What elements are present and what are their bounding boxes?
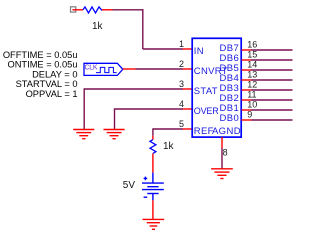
wire vertical down to pin1 row: [142, 9, 144, 49]
resistor R1 right lead: [102, 9, 113, 11]
svg-text:5: 5: [179, 119, 184, 129]
svg-text:OPPVAL = 1: OPPVAL = 1: [26, 89, 78, 99]
ground AGND 4 (pin 8): [211, 169, 233, 179]
pin 9 stub: [242, 119, 252, 121]
wire to pin 1: [143, 48, 183, 50]
svg-text:STARTVAL = 0: STARTVAL = 0: [16, 79, 78, 89]
svg-text:DELAY = 0: DELAY = 0: [32, 69, 77, 79]
wire DB3: [251, 89, 293, 91]
wire pin 4 to ground: [115, 108, 184, 110]
ground AGND 3 (battery): [143, 219, 165, 229]
svg-text:OFFTIME = 0.05u: OFFTIME = 0.05u: [3, 50, 78, 60]
svg-text:IN: IN: [194, 46, 204, 57]
svg-text:9: 9: [247, 109, 252, 119]
wire R1 to pin1 horizontal: [113, 9, 144, 11]
svg-text:4: 4: [179, 99, 184, 109]
digital clock stimulus DSTM1: [84, 63, 123, 75]
wire pin 5 to R2: [153, 128, 183, 130]
wire vertical to ground 2: [114, 108, 116, 129]
wire pin 8 to ground: [221, 148, 223, 169]
wire DB1: [251, 109, 293, 111]
pin 1 stub: [183, 48, 192, 50]
wire DB6: [251, 59, 293, 61]
svg-text:ONTIME = 0.05u: ONTIME = 0.05u: [7, 60, 77, 70]
resistor R2: [150, 140, 156, 154]
wire vertical to ground 1: [83, 88, 85, 129]
resistor R1: [83, 7, 102, 13]
wire DB0: [251, 119, 293, 121]
ground AGND 1: [73, 130, 94, 139]
pin 13 stub: [242, 79, 252, 81]
right pin stubs and wires: [242, 39, 293, 120]
wire DB4: [251, 79, 293, 81]
ground AGND 2: [104, 130, 125, 139]
pin 3 stub: [183, 88, 192, 90]
svg-text:16: 16: [247, 39, 257, 49]
wire pin 3 to ground: [84, 88, 183, 90]
pin 8 stub: [221, 137, 223, 148]
resistor R2 top lead: [152, 136, 154, 140]
terminal port P1: [71, 7, 84, 12]
battery V1 negative lead: [152, 200, 154, 219]
svg-text:DB0: DB0: [220, 113, 240, 124]
wire DB2: [251, 99, 293, 101]
resistor R2 bottom lead to battery: [152, 154, 154, 173]
svg-text:5V: 5V: [123, 180, 136, 191]
svg-text:3: 3: [179, 79, 184, 89]
op IC U1 ADC8 box: [192, 38, 241, 137]
wire DSTM1 to pin 2: [136, 68, 184, 70]
svg-text:1k: 1k: [92, 21, 104, 32]
pin 5 stub: [183, 128, 192, 130]
pin 11 stub: [242, 99, 252, 101]
pin 15 stub: [242, 59, 252, 61]
svg-text:1: 1: [179, 39, 184, 49]
wire DB5: [251, 69, 293, 71]
svg-text:15: 15: [247, 49, 257, 59]
svg-text:REF: REF: [194, 126, 214, 137]
svg-text:2: 2: [179, 59, 184, 69]
pin 14 stub: [242, 69, 252, 71]
battery V1: [142, 173, 164, 201]
svg-text:10: 10: [247, 99, 257, 109]
svg-text:AGND: AGND: [212, 126, 241, 137]
svg-text:STAT: STAT: [194, 86, 218, 97]
svg-text:1k: 1k: [163, 141, 175, 152]
svg-text:11: 11: [247, 89, 256, 99]
wire vertical to R2: [152, 128, 154, 135]
pin 10 stub: [242, 109, 252, 111]
pin 2 stub: [183, 68, 192, 70]
pin 4 stub: [183, 108, 192, 110]
DSTM1 output lead: [123, 68, 136, 70]
svg-text:12: 12: [247, 79, 257, 89]
svg-text:CLK: CLK: [85, 65, 98, 72]
pin 16 stub: [242, 49, 252, 51]
pin 12 stub: [242, 89, 252, 91]
svg-text:14: 14: [247, 59, 257, 69]
svg-text:OVER: OVER: [194, 106, 219, 116]
attribute text block (DSTM1 parameters): [3, 50, 78, 99]
svg-text:8: 8: [223, 147, 228, 157]
svg-text:13: 13: [247, 69, 257, 79]
wire DB7: [251, 49, 293, 51]
